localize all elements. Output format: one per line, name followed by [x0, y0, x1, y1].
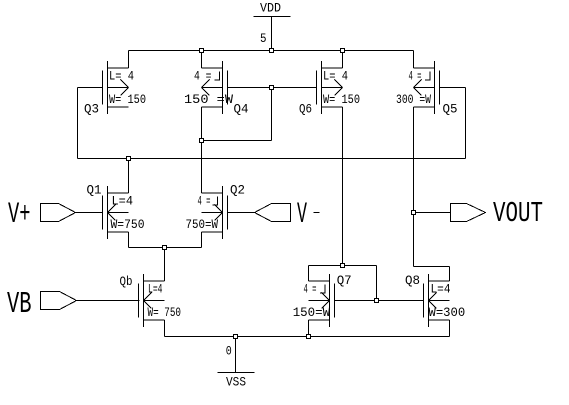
svg-text:Q6: Q6: [299, 103, 312, 117]
transistor Q8 channel: [428, 274, 430, 327]
junction Q4 source: [200, 139, 204, 143]
Q2 source to tail: [165, 247, 202, 249]
transistor Q1 arrow barb upper: [108, 205, 116, 213]
junction VDD tap: [270, 49, 274, 53]
transistor Q5 arrow barb upper: [414, 80, 422, 88]
Qb source down: [164, 320, 166, 337]
VDD stem wire: [271, 17, 273, 51]
svg-text:300 =W: 300 =W: [396, 93, 431, 107]
VSS bottom rail: [165, 336, 450, 338]
transistor Q5 bulk line: [414, 87, 435, 89]
transistor Q3 arrow barb upper: [121, 80, 129, 88]
svg-text:Q7: Q7: [337, 274, 352, 288]
svg-text:V: V: [297, 198, 307, 232]
VSS stem wire: [235, 337, 237, 373]
svg-text:0: 0: [226, 345, 232, 359]
junction VSS tap: [234, 335, 238, 339]
transistor Qb gate bar: [138, 284, 140, 318]
transistor Q4 gate bar: [227, 71, 229, 105]
second stage gate drop: [376, 266, 378, 301]
svg-text:L=4: L=4: [431, 283, 451, 297]
transistor Q6 arrow barb upper: [335, 80, 343, 88]
transistor Q4 arrow barb lower: [202, 88, 210, 96]
transistor Q5 gate bar: [439, 71, 441, 105]
Q2 mirrored-L glyph: [213, 197, 218, 205]
transistor Q8 source lead: [429, 319, 450, 321]
svg-text:Q1: Q1: [87, 184, 102, 198]
junction Q6-Q7 node: [341, 264, 345, 268]
Q4 drain-to-rail wire: [201, 51, 203, 69]
transistor Q8 gate bar: [423, 284, 425, 318]
transistor Qb arrow barb upper: [144, 293, 152, 301]
Q5 drain-to-rail wire: [413, 51, 415, 69]
transistor Q2 source lead: [202, 231, 223, 233]
Q6 source down wire: [342, 107, 344, 266]
Q4-source to Q2-drain wire: [201, 141, 203, 194]
transistor Q3 drain lead: [108, 67, 129, 69]
Q6 drain-to-rail wire: [342, 51, 344, 69]
transistor Q1 arrow barb lower: [108, 213, 116, 221]
Q7-Q8 gate interconnect: [335, 300, 424, 302]
svg-text:W=750: W=750: [111, 218, 145, 232]
transistor Q1 bulk line: [108, 212, 129, 214]
transistor Q7 arrow barb lower: [322, 301, 330, 309]
svg-text:Q4: Q4: [234, 103, 249, 117]
gate-to-Q4-source wire: [202, 140, 272, 142]
VOUT jog horizontal: [414, 266, 450, 268]
svg-text:W= 150: W= 150: [323, 93, 360, 107]
transistor Qb channel: [143, 274, 145, 327]
svg-text:L=4: L=4: [148, 283, 163, 297]
svg-text:4 =: 4 =: [304, 283, 317, 297]
transistor Q6 gate bar: [316, 71, 318, 105]
Q8 source down: [449, 320, 451, 337]
port V+ pentagon: [41, 204, 76, 222]
svg-text:5: 5: [260, 32, 267, 46]
port VOUT pentagon: [451, 204, 486, 222]
tail to Qb drain: [164, 248, 166, 282]
svg-text:Q5: Q5: [443, 103, 458, 117]
Q4 source down wire: [201, 107, 203, 141]
Q5 mirrored-L glyph: [425, 72, 430, 80]
Q7 drain top link: [309, 265, 377, 267]
junction VOUT tap: [412, 211, 416, 215]
transistor Q4 arrow barb upper: [202, 80, 210, 88]
transistor Q7 channel: [329, 274, 331, 327]
VOUT wire: [414, 212, 451, 214]
Q3 drain-to-rail wire: [128, 51, 130, 69]
transistor Q2 arrow barb upper: [215, 205, 223, 213]
junction Q3 drain / bias rail: [127, 157, 131, 161]
transistor Q2 arrow barb lower: [215, 213, 223, 221]
transistor Qb source lead: [144, 319, 165, 321]
svg-text:VB: VB: [7, 287, 32, 322]
VB wire: [77, 300, 140, 302]
transistor Q6 arrow barb lower: [335, 88, 343, 96]
transistor Q2 bulk line: [202, 212, 223, 214]
Q3 gate wire horizontal: [78, 87, 103, 89]
Q4-Q6 gate interconnect: [228, 87, 317, 89]
Q2 source down: [201, 232, 203, 248]
Q5 source down wire (VOUT node): [413, 107, 415, 267]
svg-text:750=W: 750=W: [186, 218, 219, 232]
transistor Q7 drain lead: [309, 280, 330, 282]
transistor Q2 gate bar: [227, 196, 229, 230]
transistor Q1 drain lead: [108, 192, 129, 194]
port VB pentagon: [41, 292, 77, 310]
Q7 drain up wire: [308, 266, 310, 282]
transistor Q2 channel: [222, 186, 224, 239]
transistor Q5 arrow barb lower: [414, 88, 422, 96]
transistor Q8 arrow barb lower: [429, 301, 437, 309]
VDD supply bar: [254, 16, 291, 18]
svg-text:L= 4: L= 4: [323, 70, 348, 84]
VDD top rail: [129, 50, 414, 52]
transistor Q8 arrow barb upper: [429, 293, 437, 301]
transistor Q6 source lead: [322, 106, 343, 108]
transistor Q1 source lead: [108, 231, 129, 233]
svg-text:W=300: W=300: [429, 306, 466, 320]
transistor Q3 bulk line: [108, 87, 129, 89]
svg-text:L=4: L=4: [112, 195, 134, 209]
V+ wire: [76, 212, 103, 214]
transistor Q6 channel: [321, 61, 323, 114]
transistor Q7 gate bar: [334, 284, 336, 318]
transistor Q8 bulk line: [429, 300, 450, 302]
Q7 mirrored-L glyph: [320, 285, 325, 293]
transistor Q1 gate bar: [102, 196, 104, 230]
svg-text:VOUT: VOUT: [493, 197, 543, 230]
mirror bias rail: [78, 158, 466, 160]
Q7 source down: [308, 320, 310, 337]
svg-text:VDD: VDD: [260, 2, 281, 16]
VSS supply bar: [218, 372, 255, 374]
svg-text:150=W: 150=W: [293, 306, 331, 320]
Q1 source down: [128, 232, 130, 248]
svg-text:V+: V+: [8, 198, 31, 232]
junction Q4 drain: [200, 49, 204, 53]
port V- label dash: [314, 212, 320, 214]
transistor Qb drain lead: [144, 280, 165, 282]
svg-text:Qb: Qb: [120, 275, 133, 289]
V- wire: [228, 212, 255, 214]
transistor Q4 bulk line: [202, 87, 223, 89]
transistor Q4 source lead: [202, 106, 223, 108]
svg-text:VSS: VSS: [226, 376, 246, 390]
transistor Q1 channel: [107, 186, 109, 239]
transistor Q3 channel: [107, 61, 109, 114]
transistor Q6 bulk line: [322, 87, 343, 89]
transistor Q7 bulk line: [309, 300, 330, 302]
junction second stage gate: [375, 299, 379, 303]
Q4 mirrored-L glyph: [215, 72, 220, 80]
transistor Qb bulk line: [144, 300, 165, 302]
port V- pentagon: [255, 204, 291, 222]
junction diff pair tail: [163, 246, 167, 250]
transistor Qb arrow barb lower: [144, 301, 152, 309]
transistor Q5 drain lead: [414, 67, 435, 69]
transistor Q2 drain lead: [202, 192, 223, 194]
junction Q6 drain: [341, 49, 345, 53]
transistor Q8 drain lead: [429, 280, 450, 282]
transistor Q7 source lead: [309, 319, 330, 321]
transistor Q7 arrow barb upper: [322, 293, 330, 301]
Q8 drain wire: [449, 267, 451, 282]
transistor Q3 gate bar: [102, 71, 104, 105]
transistor Q5 channel: [434, 61, 436, 114]
transistor Q3 arrow barb lower: [121, 88, 129, 96]
svg-text:4 =: 4 =: [409, 70, 422, 84]
svg-text:Q3: Q3: [84, 103, 99, 117]
svg-text:L= 4: L= 4: [109, 70, 134, 84]
transistor Q3 source lead: [108, 106, 129, 108]
Q3 gate wire vertical: [77, 88, 79, 159]
Q5 gate wire vertical: [465, 88, 467, 159]
svg-text:W= 150: W= 150: [109, 93, 146, 107]
Q1 source to tail: [129, 247, 165, 249]
Q5 gate wire horizontal: [440, 87, 466, 89]
svg-text:Q8: Q8: [405, 274, 420, 288]
Q1 drain wire: [128, 159, 130, 194]
svg-text:150 =W: 150 =W: [184, 93, 233, 107]
gate node drop wire: [271, 88, 273, 141]
transistor Q4 channel: [222, 61, 224, 114]
svg-text:4 =: 4 =: [194, 70, 212, 84]
transistor Q4 drain lead: [202, 67, 223, 69]
svg-text:4 =: 4 =: [198, 195, 211, 209]
transistor Q5 source lead: [414, 106, 435, 108]
svg-text:Q2: Q2: [230, 184, 245, 198]
junction Q7 source: [307, 335, 311, 339]
svg-text:W= 750: W= 750: [148, 306, 182, 320]
transistor Q6 drain lead: [322, 67, 343, 69]
junction gate node: [270, 86, 274, 90]
